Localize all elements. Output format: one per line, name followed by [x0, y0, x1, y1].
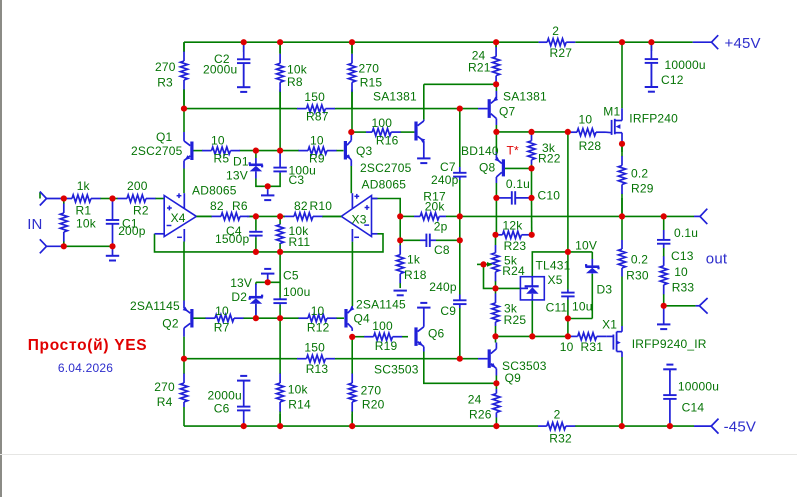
svg-text:100: 100 — [372, 319, 393, 333]
svg-text:Q4: Q4 — [354, 312, 371, 326]
svg-text:Q9: Q9 — [505, 371, 522, 385]
junction — [619, 141, 625, 147]
svg-text:R10: R10 — [310, 199, 333, 213]
op-amp X4 — [155, 184, 237, 242]
wire — [183, 359, 185, 368]
svg-text:C7: C7 — [440, 160, 456, 174]
svg-text:10V: 10V — [575, 238, 597, 252]
wire — [279, 414, 281, 426]
wire — [196, 215, 212, 217]
op-amp X3 — [341, 178, 406, 242]
zener D2 — [230, 276, 263, 318]
svg-text:IRFP240: IRFP240 — [629, 112, 678, 126]
svg-text:2p: 2p — [434, 220, 448, 234]
svg-text:2000u: 2000u — [203, 62, 237, 76]
wire — [279, 318, 281, 373]
wire — [650, 42, 652, 51]
wire — [399, 216, 401, 240]
resistor R5 — [194, 134, 256, 166]
wire — [567, 300, 569, 319]
svg-text:1k: 1k — [77, 179, 91, 193]
wire — [351, 90, 353, 133]
ground below C12 — [645, 64, 658, 91]
wire — [621, 42, 623, 108]
junction — [492, 232, 498, 238]
svg-text:R11: R11 — [289, 235, 311, 249]
svg-text:2: 2 — [552, 24, 559, 38]
svg-text:R14: R14 — [288, 398, 311, 412]
svg-text:-45V: -45V — [724, 419, 757, 436]
wire — [531, 168, 533, 198]
svg-text:2SA1145: 2SA1145 — [356, 298, 406, 312]
svg-text:R27: R27 — [550, 46, 573, 60]
wire — [496, 335, 572, 337]
junction — [648, 39, 654, 45]
junction — [181, 106, 187, 112]
junction — [529, 232, 535, 238]
resistor R8 — [277, 42, 308, 108]
wire — [495, 183, 497, 198]
svg-text:R18: R18 — [404, 268, 427, 282]
wire — [621, 357, 623, 426]
svg-text:C5: C5 — [283, 269, 299, 283]
wire — [495, 235, 497, 245]
junction — [457, 237, 463, 243]
junction — [528, 195, 534, 201]
resistor R6 — [196, 199, 256, 220]
wire — [322, 215, 341, 217]
junction — [492, 285, 498, 291]
resistor R21 — [468, 42, 500, 84]
junction — [492, 333, 498, 339]
resistor R22 — [528, 135, 561, 166]
svg-text:20k: 20k — [425, 199, 446, 213]
wire — [183, 42, 185, 52]
svg-text:10: 10 — [215, 304, 229, 318]
wire — [184, 425, 538, 427]
resistor R4 — [154, 368, 187, 409]
wire — [495, 336, 497, 342]
resistor R2 — [113, 179, 165, 218]
transistor Q8 — [461, 144, 503, 183]
transistor Q5 — [373, 90, 425, 149]
wire — [183, 90, 185, 109]
junction — [349, 423, 355, 429]
svg-text:R33: R33 — [672, 280, 695, 294]
svg-text:R21: R21 — [468, 61, 491, 75]
svg-text:100: 100 — [372, 116, 393, 130]
wire — [495, 132, 497, 152]
capacitor C4 — [215, 224, 263, 246]
svg-text:SA1381: SA1381 — [503, 90, 547, 104]
svg-text:10: 10 — [311, 304, 325, 318]
resistor R27 — [539, 24, 576, 60]
junction — [528, 129, 534, 135]
wire — [576, 425, 695, 427]
transistor Q3 — [345, 132, 411, 175]
capacitor C12 — [645, 42, 706, 87]
junction — [181, 356, 187, 362]
svg-text:10u: 10u — [572, 300, 593, 314]
capacitor C1 — [106, 199, 146, 247]
wire — [372, 199, 401, 217]
svg-text:6.04.2026: 6.04.2026 — [58, 361, 113, 375]
svg-text:X4: X4 — [171, 211, 186, 225]
junction — [493, 39, 499, 45]
svg-text:270: 270 — [361, 384, 382, 398]
wire — [184, 108, 296, 110]
ground above C6 (flipped) — [237, 376, 250, 405]
junction — [277, 148, 283, 154]
junction — [493, 423, 499, 429]
junction — [619, 39, 625, 45]
wire — [621, 198, 623, 216]
wire — [567, 252, 569, 290]
resistor R16 — [366, 116, 414, 148]
wire — [496, 131, 567, 133]
terminal IN lower pin — [40, 239, 64, 253]
transistor Q2 — [130, 299, 192, 337]
junction — [565, 129, 571, 135]
junction — [493, 380, 499, 386]
svg-text:82: 82 — [294, 199, 308, 213]
svg-text:R28: R28 — [579, 139, 602, 153]
wire — [336, 108, 478, 110]
capacitor C14 — [663, 371, 719, 426]
wire — [531, 132, 533, 135]
svg-text:270: 270 — [154, 380, 175, 394]
TL431 X5 — [520, 259, 570, 300]
junction — [619, 213, 625, 219]
resistor R3 — [155, 42, 188, 108]
capacitor C2 — [203, 42, 250, 87]
junction — [277, 423, 283, 429]
wire — [351, 414, 353, 426]
wire — [495, 125, 497, 132]
junction — [565, 249, 571, 255]
svg-text:2SC2705: 2SC2705 — [360, 161, 412, 175]
wire — [531, 300, 533, 337]
svg-text:0.2: 0.2 — [631, 166, 648, 180]
wire — [183, 337, 185, 359]
svg-text:R13: R13 — [306, 362, 329, 376]
wire — [183, 242, 185, 301]
svg-text:10000u: 10000u — [665, 58, 706, 72]
svg-text:R6: R6 — [232, 199, 248, 213]
wire — [591, 274, 593, 319]
wire — [531, 198, 533, 235]
wire — [446, 215, 460, 217]
wire — [351, 131, 366, 133]
mosfet X1 — [602, 317, 707, 357]
terminal +45V — [693, 35, 719, 49]
wire Q7 base stub — [478, 108, 488, 110]
ground below R33 — [657, 306, 670, 329]
junction — [480, 261, 486, 267]
wire — [351, 242, 353, 306]
svg-text:C8: C8 — [434, 243, 450, 257]
resistor R32 — [538, 408, 576, 446]
wire — [495, 326, 497, 336]
wire — [459, 308, 461, 359]
wire — [495, 288, 497, 293]
ground below Q5 — [417, 149, 430, 164]
wire — [64, 198, 65, 200]
wire — [350, 166, 352, 193]
wire — [459, 216, 461, 240]
svg-text:1500p: 1500p — [215, 232, 249, 246]
svg-text:+45V: +45V — [725, 35, 761, 52]
wire — [279, 305, 281, 319]
wire — [436, 239, 460, 241]
wire — [621, 144, 623, 152]
svg-text:Просто(й) YES: Просто(й) YES — [28, 337, 148, 354]
resistor R18 — [397, 245, 427, 288]
junction — [61, 243, 67, 249]
svg-text:Q2: Q2 — [162, 317, 179, 331]
svg-text:Q8: Q8 — [479, 160, 496, 174]
svg-text:0.1u: 0.1u — [674, 226, 698, 240]
wire — [183, 407, 185, 426]
resistor R31 — [560, 333, 606, 354]
capacitor C10 — [496, 177, 560, 205]
svg-text:R2: R2 — [133, 204, 149, 218]
svg-text:IN: IN — [27, 216, 42, 233]
svg-text:C13: C13 — [671, 249, 694, 263]
wire — [247, 215, 285, 217]
svg-text:R8: R8 — [287, 75, 303, 89]
wire — [568, 318, 592, 320]
svg-text:R24: R24 — [502, 264, 525, 278]
svg-text:270: 270 — [359, 62, 380, 76]
junction — [457, 356, 463, 362]
svg-text:R15: R15 — [360, 75, 383, 89]
resistor R30 — [618, 240, 648, 283]
wire — [495, 84, 497, 91]
wire — [495, 284, 497, 289]
svg-text:R32: R32 — [549, 431, 572, 445]
junction — [277, 213, 283, 219]
wire — [575, 41, 692, 43]
resistor R25 — [492, 294, 526, 328]
junction — [565, 333, 571, 339]
svg-text:R3: R3 — [157, 75, 173, 89]
junction — [277, 249, 283, 255]
svg-text:0.1u: 0.1u — [506, 177, 530, 191]
svg-text:R7: R7 — [214, 321, 230, 335]
junction — [265, 279, 271, 285]
svg-text:D3: D3 — [597, 283, 613, 297]
wire — [255, 237, 257, 252]
junction — [565, 315, 571, 321]
wire — [459, 240, 461, 294]
svg-text:BD140: BD140 — [461, 144, 499, 158]
junction — [241, 423, 247, 429]
wire — [477, 263, 492, 265]
svg-text:R29: R29 — [631, 182, 654, 196]
transistor Q7 — [489, 90, 547, 126]
svg-text:200p: 200p — [118, 224, 146, 238]
svg-text:10k: 10k — [288, 383, 309, 397]
svg-text:10: 10 — [310, 134, 324, 148]
wire — [155, 234, 384, 252]
wire — [591, 252, 593, 259]
wire — [256, 150, 280, 152]
svg-text:10k: 10k — [76, 217, 97, 231]
svg-text:R4: R4 — [157, 395, 173, 409]
wire — [621, 277, 623, 327]
wire — [532, 252, 592, 277]
svg-text:10: 10 — [211, 134, 225, 148]
svg-text:10: 10 — [674, 265, 688, 279]
svg-text:R23: R23 — [504, 239, 527, 253]
capacitor C9 — [429, 280, 466, 318]
svg-text:24: 24 — [468, 393, 482, 407]
svg-text:150: 150 — [304, 341, 325, 355]
wire — [255, 216, 257, 230]
svg-text:C3: C3 — [289, 173, 305, 187]
wire — [243, 42, 245, 52]
capacitor C3 — [273, 151, 316, 187]
wire — [531, 165, 533, 169]
junction — [253, 249, 259, 255]
svg-text:D1: D1 — [233, 155, 249, 169]
wire — [459, 180, 461, 216]
svg-text:X5: X5 — [548, 273, 563, 287]
junction — [277, 315, 283, 321]
wire — [336, 358, 478, 360]
junction — [109, 243, 115, 249]
terminal out (lower) — [696, 298, 708, 314]
wire Q9 base stub — [478, 358, 488, 360]
wire — [621, 216, 623, 240]
svg-text:150: 150 — [304, 90, 325, 104]
resistor R12 — [280, 304, 344, 335]
svg-text:200: 200 — [127, 179, 148, 193]
capacitor C11 — [546, 290, 593, 315]
capacitor C7 — [431, 160, 467, 187]
svg-text:Q1: Q1 — [156, 130, 173, 144]
junction — [619, 423, 625, 429]
svg-text:270: 270 — [155, 60, 176, 74]
svg-text:R20: R20 — [362, 398, 385, 412]
wire — [279, 216, 281, 224]
svg-text:1k: 1k — [407, 253, 421, 267]
mosfet M1 — [603, 104, 678, 144]
svg-text:C6: C6 — [214, 401, 230, 415]
zener D3 — [585, 259, 612, 297]
wire — [496, 287, 521, 289]
ground at input — [106, 246, 119, 260]
wire — [505, 167, 532, 169]
svg-text:10: 10 — [560, 340, 574, 354]
resistor R20 — [349, 373, 385, 426]
svg-text:13V: 13V — [230, 276, 252, 290]
svg-text:C10: C10 — [538, 189, 561, 203]
wire — [495, 198, 497, 235]
wire — [64, 245, 113, 247]
svg-text:240p: 240p — [431, 173, 459, 187]
resistor R15 — [348, 42, 382, 108]
junction — [241, 39, 247, 45]
junction — [349, 334, 355, 340]
resistor R17 — [414, 189, 446, 220]
junction — [109, 195, 115, 201]
wire — [495, 418, 497, 427]
wire — [255, 304, 257, 318]
capacitor C13 — [657, 226, 698, 263]
svg-text:R26: R26 — [469, 408, 492, 422]
ground below C2 — [237, 65, 250, 92]
wire — [184, 358, 296, 360]
junction — [349, 39, 355, 45]
wire — [255, 151, 257, 158]
terminal out (upper) — [694, 209, 707, 224]
resistor R28 — [568, 112, 606, 153]
junction — [493, 81, 499, 87]
junction — [253, 315, 259, 321]
svg-text:R87: R87 — [306, 110, 329, 124]
svg-text:M1: M1 — [603, 104, 620, 118]
wire — [279, 243, 281, 252]
resistor R10 — [280, 199, 341, 220]
resistor R29 — [618, 144, 653, 217]
resistor R14 — [277, 373, 312, 426]
resistor R26 — [468, 389, 500, 422]
svg-text:SC3503: SC3503 — [374, 363, 419, 377]
zener D1 — [226, 155, 263, 183]
resistor R7 — [194, 304, 256, 335]
wire — [351, 42, 353, 53]
resistor R9 — [280, 134, 343, 166]
svg-text:R1: R1 — [76, 204, 92, 218]
wire — [279, 252, 281, 298]
svg-text:R22: R22 — [538, 152, 561, 166]
wire — [423, 84, 425, 119]
ground above C14 (flipped) — [663, 365, 676, 372]
ground above D2/C5 (flipped) — [261, 269, 274, 282]
resistor R1 — [64, 179, 113, 218]
wire — [495, 383, 497, 389]
svg-text:R31: R31 — [581, 340, 604, 354]
wire — [567, 132, 569, 252]
resistor R_10k input shunt — [60, 199, 97, 247]
junction — [397, 213, 403, 219]
terminal -45V — [694, 419, 719, 434]
svg-text:82: 82 — [210, 199, 224, 213]
wire — [256, 317, 280, 319]
wire — [184, 41, 539, 43]
svg-text:TL431: TL431 — [536, 259, 571, 273]
svg-text:10000u: 10000u — [678, 379, 719, 393]
wire — [664, 305, 696, 307]
junction — [348, 129, 354, 135]
svg-text:out: out — [706, 251, 728, 268]
capacitor C5 — [273, 269, 310, 305]
junction — [528, 165, 534, 171]
wire — [424, 352, 497, 384]
wire — [459, 109, 461, 167]
svg-text:R19: R19 — [375, 339, 398, 353]
junction — [253, 213, 259, 219]
svg-text:R30: R30 — [626, 269, 649, 283]
wire — [399, 240, 401, 245]
wire — [39, 192, 41, 198]
svg-text:100u: 100u — [283, 285, 311, 299]
resistor R24 (trimmer) — [487, 245, 525, 284]
svg-text:2SA1145: 2SA1145 — [130, 299, 180, 313]
wire — [484, 264, 496, 288]
